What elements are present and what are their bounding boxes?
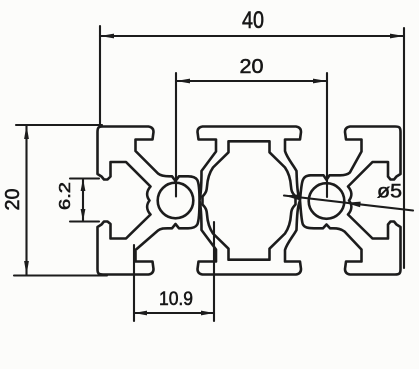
dim 40 dimension line bbox=[100, 35, 404, 37]
dim 6.2 extension line top bbox=[70, 177, 99, 179]
arrowhead dim 6.2 top bbox=[81, 179, 86, 192]
dim 6.2 extension line bottom bbox=[70, 220, 99, 222]
svg-text:20: 20 bbox=[240, 56, 264, 78]
dim 20 top extension line left bbox=[175, 73, 177, 197]
arrowhead leader at hole edge bbox=[346, 202, 361, 208]
dim 6.2 dimension line bbox=[82, 179, 84, 222]
svg-text:40: 40 bbox=[242, 7, 264, 34]
svg-text:6.2: 6.2 bbox=[57, 182, 74, 210]
dim 10.9 dimension line bbox=[134, 312, 214, 314]
dim 40 extension line right bbox=[403, 28, 405, 268]
dim 40 extension line left bbox=[99, 26, 101, 127]
arrowhead dim 20 top right bbox=[313, 79, 327, 84]
hole left ø5 bbox=[158, 183, 194, 219]
dim 20 left dimension line bbox=[25, 125, 27, 275]
svg-text:ø5: ø5 bbox=[377, 181, 402, 203]
arrowhead dim 10.9 right bbox=[201, 311, 214, 316]
leader line ø5 bbox=[284, 196, 413, 211]
arrowhead dim 20 top left bbox=[176, 79, 190, 84]
arrowhead leader at line end bbox=[284, 194, 300, 200]
arrowhead dim 6.2 bottom bbox=[81, 209, 86, 222]
dim 10.9 extension line right bbox=[213, 222, 215, 321]
svg-text:20: 20 bbox=[2, 189, 24, 211]
dim 20 left extension line bottom bbox=[14, 274, 107, 276]
hole right ø5 bbox=[309, 183, 345, 219]
dim 20 left extension line top bbox=[16, 124, 102, 126]
svg-text:10.9: 10.9 bbox=[159, 289, 193, 310]
dim 20 top dimension line bbox=[176, 80, 327, 82]
profile outer outline with T-slots bbox=[98, 127, 401, 275]
dim 10.9 extension line left bbox=[133, 245, 135, 321]
arrowhead dim 20 left top bbox=[24, 125, 29, 139]
dim 20 top extension line right bbox=[326, 73, 328, 197]
arrowhead dim 40 right bbox=[390, 34, 404, 39]
arrowhead dim 20 left bottom bbox=[24, 261, 29, 275]
arrowhead dim 10.9 left bbox=[134, 311, 147, 316]
arrowhead dim 40 left bbox=[100, 34, 114, 39]
center cavity bbox=[203, 141, 296, 259]
